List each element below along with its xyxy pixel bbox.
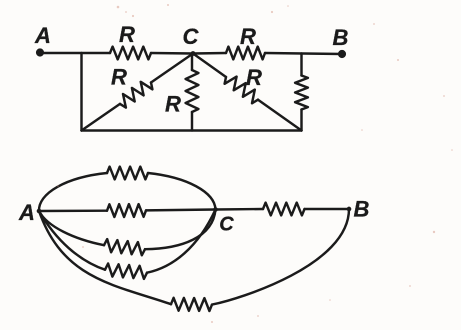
svg-text:B: B <box>354 197 370 222</box>
resistor R4 (vertical below C) <box>186 70 199 112</box>
wire lower arc 2 left half <box>39 211 105 270</box>
resistor R6 (right vertical between top wire and bottom rail) <box>295 76 308 110</box>
resistor R12 (on big bottom A to B arc) <box>171 298 212 311</box>
wire C down to R4 <box>191 54 193 71</box>
wire lower lead of diagonal resistor R3 <box>82 104 121 131</box>
wire C to R11 <box>216 208 264 211</box>
wire C to R2 <box>193 52 226 55</box>
resistor R2 (C to B, top wire) <box>226 47 265 60</box>
svg-text:A: A <box>34 23 51 48</box>
wire A to R1 <box>40 52 110 54</box>
node C junction (bottom figure) <box>214 208 216 210</box>
svg-text:R: R <box>240 24 256 49</box>
svg-text:R: R <box>111 65 127 90</box>
wire left vertical from top wire down to bottom rail <box>80 53 82 131</box>
resistor R3 (diagonal from bottom-left corner up to C) <box>120 82 152 108</box>
wire B-side branch down to R6 <box>300 54 302 76</box>
wire R8 to node C <box>146 208 216 211</box>
resistor R9 (on lower arc 1) <box>104 239 145 255</box>
wire lower arc 2 right half (up into C) <box>147 210 216 273</box>
node C junction (top figure) <box>192 52 194 54</box>
wire top arc right half (down into C) <box>148 173 216 210</box>
resistor R1 (A to C, top wire) <box>110 47 151 60</box>
wire top arc left half (A up and over) <box>39 173 107 211</box>
wire bottom rail <box>82 129 302 131</box>
wire R11 to node B <box>305 208 350 210</box>
resistor R10 (on lower arc 2) <box>105 264 147 279</box>
wire R2 to B <box>265 53 342 54</box>
svg-text:A: A <box>18 200 35 225</box>
wire big bottom arc left half (A down) <box>39 211 171 304</box>
wire upper lead of diagonal resistor R5 <box>193 54 226 78</box>
resistor R5 (diagonal from C down to bottom-right corner) <box>225 77 258 104</box>
resistor R11 (C to B) <box>263 203 305 216</box>
wire lower arc 1 left half <box>39 211 104 245</box>
wire upper lead of diagonal resistor R3 <box>151 54 193 83</box>
node A terminal dot (top figure) <box>37 50 43 56</box>
svg-text:C: C <box>183 24 200 49</box>
wire R1 to node C <box>151 52 193 55</box>
wire R4 down to bottom rail <box>191 112 193 131</box>
node A junction (bottom figure) <box>38 210 40 212</box>
wire lower lead of diagonal resistor R5 <box>258 100 302 131</box>
wire R6 down to bottom rail <box>300 110 302 131</box>
svg-text:C: C <box>219 214 234 236</box>
svg-text:R: R <box>246 65 262 90</box>
svg-text:R: R <box>119 22 135 47</box>
svg-text:R: R <box>165 92 181 117</box>
wire lower arc 1 right half (up into C) <box>145 210 216 250</box>
node B corner (bottom figure) <box>348 208 350 210</box>
node B terminal dot (top figure) <box>339 51 345 57</box>
resistor R8 (A to C, straight middle branch) <box>107 204 146 217</box>
svg-text:B: B <box>333 25 349 50</box>
resistor R7 (on top arc) <box>107 167 148 180</box>
wire big bottom arc right half (up into B) <box>212 209 349 305</box>
wire A to R8 (straight branch) <box>39 209 107 212</box>
